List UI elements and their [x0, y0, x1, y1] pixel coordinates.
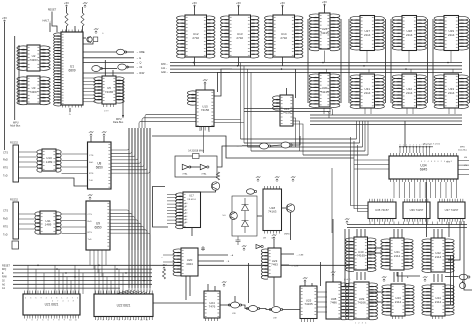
rail U34 top pins — [399, 146, 433, 153]
wire U20 out a — [198, 254, 228, 256]
svg-text:3: 3 — [30, 298, 31, 300]
svg-text:R/W→: R/W→ — [161, 63, 168, 66]
wires video column pair — [451, 255, 454, 305]
svg-text:2732: 2732 — [192, 36, 199, 40]
svg-text:3: 3 — [362, 323, 363, 325]
junction dots bottom bus — [37, 265, 145, 282]
svg-text:0: 0 — [77, 298, 78, 300]
IC U11 MC1489 — [35, 211, 61, 234]
svg-text:+5V: +5V — [221, 280, 226, 284]
svg-text:TxD: TxD — [3, 175, 8, 178]
wire RAM column bus right x=374.5 — [385, 19, 387, 103]
wire R1 bottom to U1 pins — [66, 26, 68, 32]
IC U26 74245 — [309, 13, 340, 51]
IC U28 2114 — [392, 16, 426, 51]
IC U15 74LS156 — [196, 90, 214, 127]
wire into delay box — [257, 215, 262, 217]
svg-text:RxD: RxD — [89, 162, 94, 164]
svg-text:+5V: +5V — [93, 27, 98, 31]
svg-text:→ E: → E — [136, 56, 141, 60]
wire crystal bottom — [83, 42, 93, 44]
pin numbers U39 bottom — [355, 323, 366, 325]
svg-text:→ B: → B — [225, 261, 230, 263]
wires U25 to U38 — [317, 292, 327, 312]
power +5V U8 a — [88, 130, 93, 137]
power +5V U8 b — [101, 130, 106, 137]
gate U6c — [118, 64, 129, 70]
svg-text:1: 1 — [403, 145, 404, 147]
svg-text:7: 7 — [72, 298, 73, 300]
svg-text:7: 7 — [57, 301, 58, 303]
wires U41 to U43 links — [394, 272, 402, 282]
label E — [136, 56, 141, 60]
svg-text:R/W: R/W — [2, 276, 7, 279]
label RS232 J1 — [10, 141, 18, 145]
label RESET — [48, 9, 57, 12]
wires U15 right to corner — [214, 120, 244, 123]
wire R2 bottom to U1 — [75, 26, 83, 32]
IC U22 MC6821 PIA — [94, 291, 153, 321]
svg-text:2: 2 — [424, 161, 425, 163]
label MPU addr feed — [161, 71, 168, 74]
IC U44 2114 — [422, 284, 454, 316]
wire U19b to U19c — [259, 309, 272, 310]
pins U1 right edge — [63, 30, 82, 33]
pin numbers U34 top — [400, 145, 431, 147]
label CTS J2 — [3, 210, 8, 213]
wire U20 down — [185, 276, 187, 300]
power +5V EPROM 3 — [280, 1, 285, 8]
wires RAM row stubs to bus — [325, 51, 454, 74]
wire right edge bus — [448, 221, 460, 260]
bus U8 data elbows — [111, 128, 150, 173]
pins U15 inner ticks — [197, 92, 213, 125]
wire U25 top b — [311, 283, 313, 286]
label XTAL B — [201, 173, 207, 176]
wire U24 top a — [207, 284, 209, 291]
wire U6a out DBE — [126, 51, 135, 53]
power +5V top-left — [2, 16, 7, 23]
gate U19b — [246, 306, 259, 312]
svg-text:4: 4 — [413, 145, 414, 147]
svg-text:6845: 6845 — [420, 168, 428, 172]
svg-text:+5V: +5V — [274, 175, 279, 179]
wire U10 route lower — [19, 178, 88, 186]
connector J1 RS232 — [13, 145, 19, 182]
svg-text:4024: 4024 — [186, 262, 193, 266]
svg-text:←: ← — [161, 256, 164, 259]
svg-text:6: 6 — [35, 298, 36, 300]
IC U40 74165 — [345, 237, 376, 271]
svg-text:14.31818 MHz: 14.31818 MHz — [188, 150, 204, 153]
svg-text:U21 6821: U21 6821 — [45, 303, 59, 307]
crystal X1 — [93, 37, 98, 42]
wires mux output stubs — [370, 222, 461, 225]
svg-text:6: 6 — [431, 161, 432, 163]
label A1 bottom bus — [2, 287, 6, 290]
svg-text:XTAL: XTAL — [182, 173, 188, 176]
arrowhead data bus — [122, 115, 124, 119]
IC U13 2732 — [221, 15, 259, 58]
pin numbers U21 top — [25, 298, 78, 300]
wire U6b to U6c — [101, 68, 117, 70]
svg-text:6850: 6850 — [94, 226, 101, 230]
oscillator module box — [175, 156, 217, 177]
wire U16 top — [286, 88, 288, 95]
wire bus B drop to U34 rail — [404, 121, 406, 147]
svg-text:2114: 2114 — [395, 300, 402, 304]
svg-text:RTS: RTS — [88, 232, 93, 234]
svg-text:8: 8 — [73, 301, 74, 303]
svg-text:+5V: +5V — [202, 78, 207, 82]
svg-text:+5V: +5V — [101, 130, 106, 134]
power +5V under delay — [241, 244, 246, 251]
label DBE — [136, 50, 145, 54]
bus MPU data vertical bundle — [129, 128, 150, 288]
wire right edge bus2 — [464, 221, 472, 290]
wire U24 to U19a — [220, 304, 231, 306]
power +5V U18 a — [255, 175, 260, 182]
svg-text:RES: RES — [446, 162, 451, 164]
wire RESET bus line — [13, 264, 350, 266]
svg-text:9: 9 — [41, 298, 42, 300]
wire long vertical x332 — [331, 168, 333, 233]
crystal X2 — [193, 154, 200, 159]
svg-text:A3: A3 — [185, 212, 187, 215]
label 02 bottom bus — [2, 280, 5, 283]
IC U42 2114 — [422, 238, 454, 272]
wires U42 to U44 links — [434, 274, 442, 282]
wires RS232 J1 to U10 — [19, 152, 37, 167]
oscillator Y1 circle — [87, 36, 92, 42]
pins U5 bottom — [104, 104, 114, 113]
svg-text:2: 2 — [46, 298, 47, 300]
pins U18 bottom — [265, 231, 280, 234]
wires U15 bottom to osc — [200, 127, 209, 154]
svg-text:2MHz: 2MHz — [284, 234, 290, 236]
wire U39 to U43 a — [369, 291, 384, 293]
svg-text:Addr Bus: Addr Bus — [10, 125, 21, 128]
svg-text:2732: 2732 — [236, 36, 243, 40]
svg-text:+5V: +5V — [82, 1, 87, 5]
wires bus drops to U40 — [357, 229, 365, 237]
bus EPROM chip-select lines — [170, 63, 462, 73]
diode CR2 — [242, 198, 249, 218]
label 02 — [136, 65, 143, 69]
wires corner down to video bus — [241, 63, 252, 152]
power +5V U44 — [422, 275, 427, 282]
svg-text:6809: 6809 — [68, 69, 75, 73]
power +5V above R1 — [64, 1, 69, 8]
wires U10 to U8 — [62, 154, 88, 174]
wire EPROM 2 CS drop — [238, 57, 240, 66]
svg-text:+5V: +5V — [192, 1, 197, 5]
wire 02 bus line — [13, 280, 152, 282]
label A0 bottom bus — [2, 283, 6, 286]
label Q — [136, 61, 141, 65]
risers bus C to bus B — [357, 121, 369, 155]
power +5V U9 — [87, 193, 92, 200]
IC U5 74LS365 — [94, 76, 124, 104]
IC U31 2114 — [350, 74, 384, 108]
IC U36 74LS157 — [403, 199, 430, 222]
IC U9 MC6850 ACIA — [86, 201, 110, 250]
svg-text:74367: 74367 — [29, 58, 38, 62]
svg-text:7486: 7486 — [330, 300, 337, 304]
wire U23 out a — [281, 253, 294, 255]
wires bundle fan to U22 — [116, 288, 150, 294]
svg-text:→ Q: → Q — [136, 61, 141, 65]
wire A-bus left drop — [14, 36, 16, 120]
svg-text:+5V: +5V — [302, 276, 307, 280]
label RTS — [3, 167, 8, 170]
IC U24 74LS76 — [204, 291, 220, 318]
svg-text:RS232: RS232 — [10, 198, 18, 202]
svg-text:+5V: +5V — [88, 130, 93, 134]
label 2.4MHz — [296, 255, 304, 257]
svg-text:2: 2 — [358, 323, 359, 325]
svg-text:1: 1 — [61, 298, 62, 300]
capacitor C12 under delay box — [236, 237, 241, 246]
wire +5V drop U8b — [103, 136, 105, 142]
IC U38 7486 — [326, 282, 349, 320]
pins U44 bottom — [433, 316, 443, 319]
svg-text:+5V: +5V — [87, 193, 92, 197]
svg-text:XTAL: XTAL — [201, 173, 207, 176]
wire clk drop to U19b — [248, 263, 250, 303]
label IRQ bottom bus — [2, 268, 6, 271]
wire R1 to U1 — [66, 7, 68, 13]
wire U17 bottom drop — [191, 228, 193, 237]
svg-text:74165: 74165 — [357, 253, 366, 257]
wire Q out low — [83, 72, 134, 74]
svg-text:U17: U17 — [189, 194, 194, 198]
wire R2 branch — [74, 26, 76, 32]
wire U15 top — [204, 83, 206, 90]
svg-text:1M: 1M — [263, 238, 266, 240]
svg-text:IRQ: IRQ — [2, 268, 6, 271]
wires U40 to U39 links — [357, 272, 365, 280]
label R/W bottom bus — [2, 276, 7, 279]
wires rail-a elbows to bus B — [327, 109, 333, 119]
wire U40 to U41 a — [368, 247, 383, 249]
wire riser x320 — [320, 262, 322, 286]
svg-text:A5: A5 — [185, 218, 187, 221]
wire R/W bus line — [13, 276, 152, 278]
wire +5V drops U8 — [90, 136, 92, 142]
wire A1 bus line — [13, 287, 120, 289]
wire R2 top — [82, 7, 84, 13]
svg-text:4: 4 — [444, 161, 445, 163]
pins U24 bottom — [206, 318, 218, 321]
IC U39 74166 — [345, 282, 377, 320]
gate U19a — [228, 302, 241, 308]
svg-text:2114: 2114 — [364, 33, 371, 37]
IC U12 2732 — [177, 15, 215, 58]
wires RAM row2 stubs — [324, 108, 455, 114]
svg-text:2114: 2114 — [448, 91, 455, 95]
power +5V U15 — [202, 78, 207, 85]
power +5V U18 b — [274, 175, 279, 182]
svg-text:74LS151: 74LS151 — [187, 199, 197, 201]
label U20 out a — [229, 254, 234, 257]
label HS — [464, 157, 468, 159]
label MPU address bus — [13, 122, 19, 125]
svg-text:→ 02: → 02 — [136, 65, 143, 69]
svg-text:RTS: RTS — [89, 173, 94, 175]
label XTAL A — [182, 173, 188, 176]
pins U18 top — [265, 186, 280, 189]
svg-text:→ DBE: → DBE — [136, 50, 145, 54]
label RxD J2 — [3, 218, 8, 221]
wire U34 down to U42 — [426, 182, 428, 237]
power +5V EPROM 1 — [192, 1, 197, 8]
label R/W out — [136, 71, 145, 75]
wire U23 out b — [281, 264, 289, 266]
IC U10 MC1489 — [37, 149, 61, 172]
svg-text:RxD: RxD — [3, 218, 8, 221]
wire HALT to U1 — [49, 23, 51, 33]
inverter osc B — [200, 164, 209, 169]
wire U18 to Q2 — [281, 207, 286, 209]
wires bus drops to U42 — [434, 229, 442, 238]
pins U1 bottom edge — [63, 105, 82, 108]
capacitor C9 — [201, 246, 205, 251]
gate U6a clock buffer — [117, 49, 127, 55]
svg-text:RESET: RESET — [48, 9, 57, 12]
svg-text:74245: 74245 — [320, 31, 329, 35]
label 2MHz — [284, 234, 290, 236]
pin labels U9 left — [88, 214, 93, 241]
label TxD — [3, 175, 8, 178]
transistor Q2 — [286, 204, 294, 212]
wire U25 top +5 — [304, 281, 306, 286]
svg-text:+5V: +5V — [381, 275, 386, 279]
IC U2 74LS367 — [17, 45, 50, 71]
resistor R1 — [65, 13, 68, 26]
label 14.31818 MHz — [188, 150, 204, 153]
svg-text:RxD: RxD — [88, 221, 93, 223]
wires left bundle to U39 — [345, 229, 349, 286]
label MPU data bus — [116, 118, 122, 121]
wires U15 left bus to MPU — [139, 114, 196, 128]
svg-text:74365: 74365 — [105, 90, 114, 94]
pin numbers U21 — [26, 320, 78, 322]
wires U1 data bus to U5 — [83, 78, 96, 102]
bus U9 data elbows — [110, 210, 150, 250]
power +5V U23 — [271, 233, 276, 240]
power +5V Q2 — [290, 175, 295, 182]
inverter osc A — [182, 164, 191, 169]
power +5V U25 — [302, 276, 307, 283]
IC U1 6809 MPU — [54, 32, 83, 106]
label TxD J2 — [3, 234, 8, 237]
pins U25 ticks — [301, 288, 316, 314]
descenders to mux selects — [351, 137, 369, 212]
label 5.0MHz — [222, 215, 226, 217]
wire video conn — [462, 281, 464, 283]
wire EPROM 1 CS drop — [194, 57, 196, 66]
svg-text:U22 6821: U22 6821 — [117, 303, 131, 307]
wire U6c out — [127, 66, 134, 68]
svg-text:4: 4 — [62, 301, 63, 303]
svg-text:1489: 1489 — [46, 160, 53, 164]
label osc arrow — [236, 144, 239, 148]
wires U34 left inputs — [354, 160, 389, 169]
wire RAM right edge link — [469, 19, 471, 103]
svg-text:4: 4 — [365, 323, 366, 325]
wire E line — [83, 57, 134, 59]
gate U19c — [269, 307, 282, 313]
wire U7b out — [291, 136, 300, 145]
IC U37 74LS157 — [438, 199, 465, 222]
wire U1 to U6a — [83, 51, 116, 53]
pins U9 ticks — [107, 203, 109, 246]
svg-text:U36 74157: U36 74157 — [410, 208, 424, 212]
wire U7a to U7b — [270, 145, 281, 146]
svg-text:0: 0 — [421, 161, 422, 163]
label U20 out b — [225, 261, 230, 263]
svg-text:A1: A1 — [185, 205, 187, 208]
IC U8 MC6850 ACIA — [88, 142, 112, 189]
IC U23 74LS93 — [261, 248, 281, 279]
resistor R5 timing — [216, 172, 219, 180]
connector P1 stub — [12, 241, 19, 249]
label cap crystal — [102, 31, 105, 35]
svg-text:2114: 2114 — [394, 254, 401, 258]
svg-text:1: 1 — [355, 323, 356, 325]
label addr bus 2 — [10, 125, 21, 128]
wire EPROM 3 CS drop — [282, 57, 284, 66]
svg-text:5: 5 — [51, 298, 52, 300]
label RS232 J2 — [10, 198, 18, 202]
IC U27 2114 — [350, 16, 384, 51]
label A7 U41 — [407, 276, 409, 279]
connector J2 RS232 — [13, 202, 19, 239]
svg-text:2114: 2114 — [406, 91, 413, 95]
label U20 input — [161, 256, 164, 259]
IC U34 MC6845 CRTC — [389, 153, 458, 182]
svg-text:CTS: CTS — [3, 152, 8, 155]
svg-text:+5V: +5V — [422, 275, 427, 279]
wire U38 top +5 — [332, 275, 334, 282]
svg-text:RESET: RESET — [2, 264, 11, 267]
label data bus right2 — [458, 149, 468, 152]
svg-text:2: 2 — [406, 145, 407, 147]
svg-text:2114: 2114 — [435, 255, 442, 259]
wires U34 to muxes — [394, 182, 456, 198]
svg-text:→ A: → A — [229, 254, 234, 257]
delay line module box — [232, 196, 257, 236]
svg-text:+5V: +5V — [271, 233, 276, 237]
label CTS — [3, 152, 8, 155]
svg-text:Data Bus: Data Bus — [113, 121, 124, 124]
wire RAM column bus right x=416.5 — [427, 19, 429, 103]
power +5V RAM — [322, 0, 327, 7]
current source CR1 — [230, 212, 238, 220]
wires drops to U21 — [55, 265, 83, 294]
svg-text:+5V: +5V — [236, 1, 241, 5]
svg-text:U37 74157: U37 74157 — [445, 208, 459, 212]
label U19a — [232, 313, 237, 315]
wire Q2 down — [290, 212, 292, 240]
IC U43 2114 — [382, 284, 414, 316]
svg-text:RTS: RTS — [3, 226, 8, 229]
svg-text:+5V: +5V — [64, 1, 69, 5]
wire +5V EPROM 2 — [238, 6, 240, 15]
wire E to U5 top — [104, 60, 106, 76]
label to pin14 U34 — [420, 143, 441, 146]
